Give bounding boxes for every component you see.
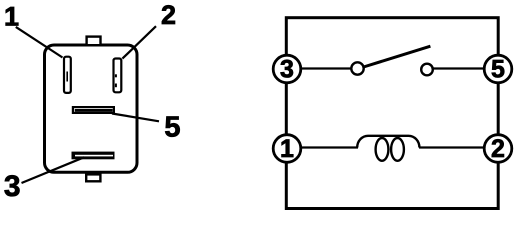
pin 5 terminal [484,55,512,83]
switch contact right [421,64,433,76]
leader line to pin 1 [16,27,63,58]
pin 2 slot [114,59,122,93]
pin 5 slot [73,107,114,113]
pin 1 terminal [273,135,301,163]
leader line to pin 5 [112,114,159,122]
svg-text:1: 1 [280,135,294,163]
relay connector body [45,45,138,172]
wire pin1 to coil [301,146,358,148]
leader line to pin 2 [122,26,156,58]
svg-text:5: 5 [491,56,505,84]
switch arm [364,46,431,67]
svg-text:1: 1 [4,1,19,31]
svg-text:2: 2 [161,0,176,30]
schematic box [286,18,498,209]
wire coil to pin2 [419,146,484,148]
coil L1 [357,136,419,161]
pin 1 slot [64,57,71,93]
svg-text:2: 2 [491,135,505,163]
pin 2 terminal [484,135,512,163]
pin 3 slot [72,152,115,160]
top mounting tab [87,37,101,46]
pin 3 terminal [273,55,301,83]
wire contact to pin5 [432,67,484,69]
svg-text:3: 3 [280,56,294,84]
svg-text:5: 5 [164,112,180,144]
wire pin3 to contact [301,67,352,69]
bottom mounting tab [86,174,100,181]
svg-text:3: 3 [4,170,21,203]
leader line to pin 3 [22,157,85,183]
switch contact left [351,62,363,74]
